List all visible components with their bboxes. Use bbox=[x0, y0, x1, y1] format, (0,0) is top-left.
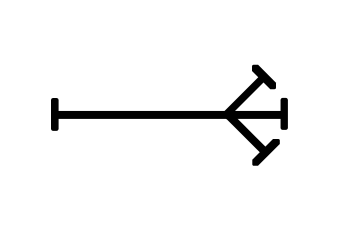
pin cap middle right bbox=[281, 98, 288, 130]
pin cap lower bbox=[252, 139, 279, 166]
pin cap upper bbox=[252, 65, 276, 90]
branch wire upper bbox=[224, 76, 265, 117]
branch wire lower bbox=[225, 112, 266, 153]
wire main horizontal bbox=[55, 111, 284, 119]
terminal pin cap left bbox=[51, 98, 59, 131]
